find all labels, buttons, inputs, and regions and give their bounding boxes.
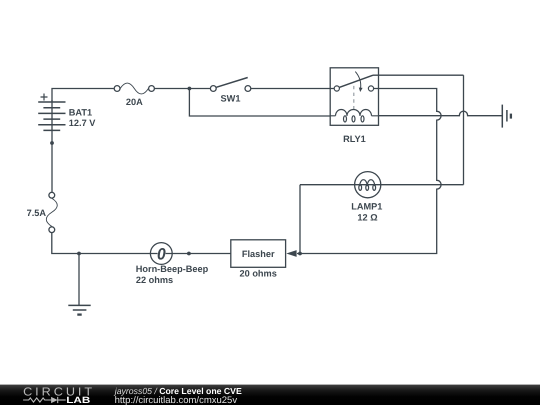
- wire battery stem: [51, 100, 53, 192]
- RLY1 actuation arrow: [355, 72, 360, 88]
- svg-text:BAT1: BAT1: [69, 108, 92, 118]
- arrowhead into flasher: [286, 250, 296, 257]
- battery plus sign: [41, 94, 48, 101]
- wire RLY1 contact to flasher bus with hops: [297, 89, 441, 254]
- battery BAT1: [38, 94, 65, 131]
- svg-text:Horn-Beep-Beep: Horn-Beep-Beep: [136, 264, 209, 274]
- wire right bus down to lamp row: [463, 75, 465, 185]
- wire RLY1 lever out to right bus: [373, 74, 464, 76]
- wire RLY1 coil to ground with hop: [379, 111, 503, 116]
- junction lamp-left on flasher bus: [298, 252, 302, 256]
- svg-text:LAB: LAB: [66, 395, 91, 405]
- junction right of horn: [187, 252, 191, 256]
- footer bar: [0, 385, 540, 405]
- switch SW1: [210, 78, 250, 92]
- wire junction to RLY1 coil: [189, 89, 330, 117]
- fuse F2 20A: [114, 83, 154, 94]
- wire lamp row: [300, 184, 464, 186]
- svg-text:Flasher: Flasher: [242, 249, 275, 259]
- svg-text:SW1: SW1: [221, 93, 241, 103]
- svg-text:http://circuitlab.com/cmxu25v: http://circuitlab.com/cmxu25v: [115, 395, 238, 405]
- svg-text:RLY1: RLY1: [343, 134, 366, 144]
- logo resistor and diode: [23, 397, 66, 403]
- wire battery top to fuse 20A: [52, 89, 114, 103]
- svg-text:7.5A: 7.5A: [27, 208, 47, 218]
- ground left: [68, 305, 90, 314]
- wire fuse 7.5A to horn and flasher: [52, 233, 231, 254]
- RLY1 actuation dashed line: [353, 86, 355, 111]
- svg-text:20 ohms: 20 ohms: [240, 269, 277, 279]
- wire ground stem: [78, 254, 80, 306]
- fuse F1 7.5A: [46, 192, 57, 232]
- svg-text:12.7 V: 12.7 V: [69, 118, 96, 128]
- node junction on top wire: [188, 87, 192, 91]
- svg-text:22 ohms: 22 ohms: [136, 275, 173, 285]
- svg-text:0: 0: [157, 245, 167, 263]
- wire lamp left down to flasher bus: [299, 185, 301, 254]
- junction battery bottom: [50, 141, 54, 145]
- svg-text:20A: 20A: [126, 97, 143, 107]
- wire fuse 20A to SW1: [155, 88, 211, 90]
- wire SW1 to RLY1 pin: [251, 88, 334, 90]
- svg-text:LAMP1: LAMP1: [351, 202, 382, 212]
- horn H1: [150, 243, 172, 265]
- RLY1 switch contacts: [334, 86, 339, 91]
- lamp LAMP1: [355, 172, 381, 198]
- relay RLY1 box: [330, 68, 378, 126]
- ground right (rotated): [502, 105, 511, 128]
- junction ground stem: [77, 252, 81, 256]
- RLY1 coil: [330, 109, 378, 122]
- RLY1 switch lever: [339, 75, 373, 87]
- flasher box: [231, 240, 286, 267]
- svg-text:12 Ω: 12 Ω: [357, 212, 377, 222]
